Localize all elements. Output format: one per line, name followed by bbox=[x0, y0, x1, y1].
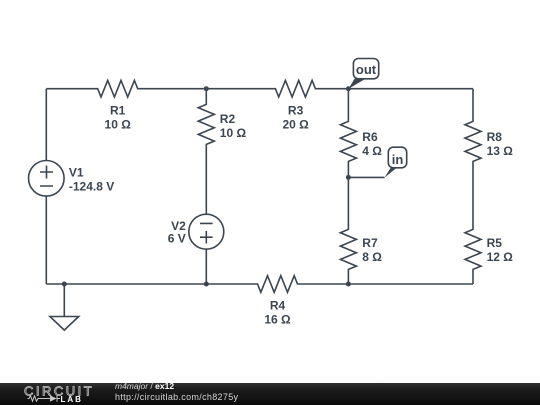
svg-text:in: in bbox=[392, 152, 404, 167]
svg-text:R3: R3 bbox=[288, 104, 304, 118]
svg-text:8 Ω: 8 Ω bbox=[362, 250, 382, 264]
svg-text:V1: V1 bbox=[69, 166, 84, 180]
svg-text:R7: R7 bbox=[362, 236, 378, 250]
svg-text:20 Ω: 20 Ω bbox=[282, 118, 309, 132]
svg-text:13 Ω: 13 Ω bbox=[487, 144, 514, 158]
svg-text:12 Ω: 12 Ω bbox=[487, 250, 514, 264]
svg-text:16 Ω: 16 Ω bbox=[264, 313, 291, 327]
svg-text:R5: R5 bbox=[487, 236, 503, 250]
svg-text:6 V: 6 V bbox=[168, 231, 186, 245]
svg-text:out: out bbox=[356, 62, 377, 77]
svg-text:LAB: LAB bbox=[61, 395, 83, 404]
svg-text:10 Ω: 10 Ω bbox=[105, 118, 132, 132]
svg-text:R4: R4 bbox=[270, 299, 286, 313]
svg-text:R6: R6 bbox=[362, 130, 378, 144]
svg-text:R2: R2 bbox=[220, 112, 236, 126]
svg-text:10 Ω: 10 Ω bbox=[220, 126, 247, 140]
svg-text:R8: R8 bbox=[487, 130, 503, 144]
svg-text:R1: R1 bbox=[110, 104, 126, 118]
svg-text:-124.8 V: -124.8 V bbox=[69, 180, 114, 194]
svg-text:4 Ω: 4 Ω bbox=[362, 144, 382, 158]
